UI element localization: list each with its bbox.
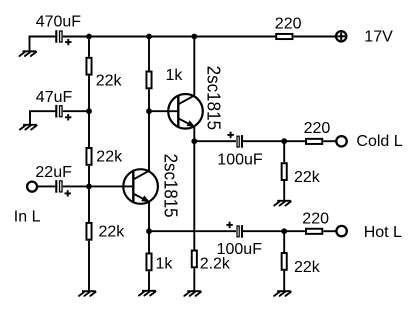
C5 value label 100uF: [217, 241, 263, 258]
R2 value label 22k: [96, 149, 123, 166]
output terminal Hot L: [336, 226, 346, 236]
wire: [193, 268, 195, 291]
svg-text:100uF: 100uF: [217, 151, 263, 168]
svg-text:22k: 22k: [294, 169, 321, 186]
wire: [284, 140, 305, 142]
net label Cold L: [356, 133, 402, 150]
net label 17V: [364, 28, 393, 45]
wire: [88, 37, 90, 57]
power terminal 17V: [336, 31, 346, 41]
C4 value label 100uF: [217, 151, 263, 168]
svg-text:22k: 22k: [96, 73, 123, 90]
wire: [193, 37, 195, 96]
resistor R2 22k: [86, 148, 91, 165]
wire: [37, 185, 55, 187]
capacitor C5 100uF: [226, 222, 242, 238]
resistor R9 2.2k: [192, 251, 197, 268]
net label In L: [14, 208, 41, 225]
Q1 label 2sc1815: [160, 154, 180, 218]
node rail-C junction: [191, 34, 197, 40]
wire: [63, 185, 89, 187]
wire: [89, 36, 149, 38]
wire: [194, 140, 236, 142]
transistor Q1 2SC1815: [123, 169, 158, 204]
svg-text:22k: 22k: [294, 259, 321, 276]
R7 value label 22k: [294, 169, 321, 186]
svg-text:47uF: 47uF: [36, 89, 73, 106]
resistor R10 22k: [282, 253, 287, 270]
R11 value label 1k: [156, 255, 174, 272]
node rail-B junction: [146, 34, 152, 40]
R1 value label 22k: [96, 73, 123, 90]
output terminal Cold L: [336, 136, 346, 146]
wire: [149, 36, 194, 38]
ground: [139, 291, 156, 296]
resistor R3 22k: [86, 223, 91, 240]
node D junction: [191, 138, 197, 144]
C1 value label 470uF: [36, 14, 82, 31]
ground: [20, 125, 37, 130]
svg-text:1k: 1k: [166, 67, 184, 84]
wire: [194, 36, 275, 38]
ground: [274, 201, 291, 206]
resistor R4 1k: [146, 72, 151, 89]
wire: [63, 110, 89, 112]
wire: [284, 230, 305, 232]
wire: [148, 111, 150, 171]
wire: [88, 76, 90, 112]
resistor R5 220: [276, 34, 292, 39]
svg-text:220: 220: [275, 16, 302, 33]
wire: [193, 141, 195, 249]
wire: [148, 89, 150, 111]
svg-text:22uF: 22uF: [35, 164, 72, 181]
wire: [148, 271, 150, 291]
svg-text:In L: In L: [14, 208, 41, 225]
capacitor C4 100uF: [227, 132, 242, 148]
svg-text:220: 220: [304, 120, 331, 137]
wire: [149, 110, 178, 112]
wire: [63, 36, 89, 38]
wire: [243, 140, 284, 142]
resistor R1 22k: [86, 58, 91, 75]
R10 value label 22k: [294, 259, 321, 276]
R3 value label 22k: [99, 223, 126, 240]
R9 value label 2.2k: [200, 255, 231, 272]
node F junction: [281, 228, 287, 234]
capacitor C1 470uF: [56, 30, 71, 45]
Q2 label 2sc1815: [203, 66, 223, 130]
wire: [283, 181, 285, 201]
svg-text:220: 220: [302, 211, 329, 228]
wire: [323, 230, 336, 232]
wire: [30, 37, 56, 52]
resistor R8 220: [306, 229, 322, 234]
C3 value label 22uF: [35, 164, 72, 181]
transistor Q2 2SC1815: [168, 94, 203, 129]
R6 value label 220: [304, 120, 331, 137]
svg-text:22k: 22k: [99, 223, 126, 240]
wire: [193, 127, 195, 141]
node B junction: [86, 184, 92, 190]
wire: [88, 241, 90, 292]
wire: [323, 140, 336, 142]
svg-text:Cold L: Cold L: [356, 133, 402, 150]
capacitor C2 47uF: [56, 105, 71, 121]
svg-text:2sc1815: 2sc1815: [203, 66, 223, 130]
wire: [283, 141, 285, 162]
node rail-A junction: [86, 34, 92, 40]
capacitor C3 22uF: [56, 180, 71, 197]
wire: [88, 111, 90, 147]
svg-text:100uF: 100uF: [217, 241, 263, 258]
wire: [243, 230, 284, 232]
R8 value label 220: [302, 211, 329, 228]
wire: [148, 231, 150, 252]
wire: [148, 37, 150, 71]
wire: [30, 111, 55, 125]
ground: [79, 291, 96, 296]
svg-text:2sc1815: 2sc1815: [160, 154, 180, 218]
C2 value label 47uF: [36, 89, 73, 106]
node G junction: [146, 228, 152, 234]
ground: [184, 291, 201, 296]
node A junction: [86, 108, 92, 114]
svg-text:22k: 22k: [96, 149, 123, 166]
svg-text:17V: 17V: [364, 28, 393, 45]
wire: [283, 231, 285, 252]
svg-text:470uF: 470uF: [36, 14, 82, 31]
resistor R6 220: [306, 139, 322, 144]
svg-text:1k: 1k: [156, 255, 174, 272]
ground: [274, 291, 291, 296]
wire: [149, 230, 236, 232]
R4 value label 1k: [166, 67, 184, 84]
resistor R11 1k: [146, 254, 151, 271]
wire: [148, 202, 150, 231]
node E junction: [281, 138, 287, 144]
wire: [294, 36, 337, 38]
svg-text:Hot L: Hot L: [364, 224, 402, 241]
resistor R7 22k: [282, 163, 287, 180]
wire: [283, 271, 285, 291]
wire: [88, 186, 90, 222]
node C junction: [146, 108, 152, 114]
wire: [89, 185, 133, 187]
net label Hot L: [364, 224, 402, 241]
input terminal In L: [27, 182, 37, 192]
R5 value label 220: [275, 16, 302, 33]
ground: [20, 51, 37, 56]
wire: [88, 166, 90, 187]
